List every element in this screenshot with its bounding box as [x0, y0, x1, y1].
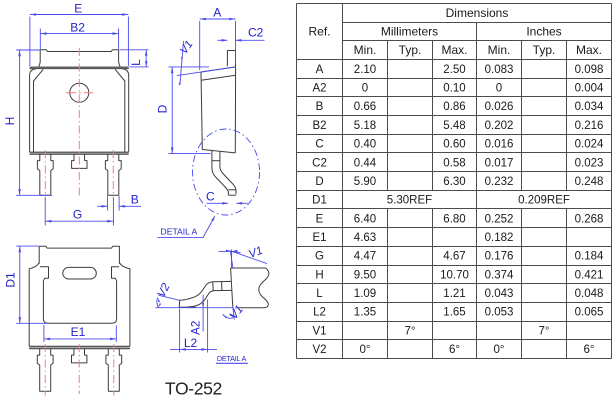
svg-text:0.023: 0.023 [575, 157, 604, 169]
dimension V1 top (detail) [231, 250, 233, 269]
svg-text:V1: V1 [228, 304, 246, 322]
svg-text:6.40: 6.40 [354, 213, 376, 225]
svg-text:0.248: 0.248 [575, 176, 604, 188]
bottom view: red center lines [44, 344, 46, 396]
detail A: lead foot [179, 281, 231, 307]
svg-text:D1: D1 [3, 272, 17, 288]
svg-text:DETAIL A: DETAIL A [161, 227, 198, 237]
detail A: body corner with break line [231, 268, 269, 308]
svg-text:V2: V2 [156, 281, 173, 299]
svg-text:0.60: 0.60 [443, 139, 465, 151]
svg-text:D1: D1 [312, 195, 327, 207]
svg-text:Typ.: Typ. [533, 43, 556, 57]
svg-text:B2: B2 [70, 21, 85, 35]
svg-text:0.184: 0.184 [575, 251, 604, 263]
svg-text:0.176: 0.176 [485, 251, 514, 263]
bottom view: right lead [106, 349, 122, 392]
svg-text:L2: L2 [184, 336, 198, 350]
svg-text:0.182: 0.182 [485, 232, 514, 244]
svg-text:0: 0 [496, 83, 502, 95]
svg-text:L: L [316, 288, 323, 300]
svg-text:0.40: 0.40 [354, 139, 376, 151]
svg-text:0.421: 0.421 [575, 269, 604, 281]
svg-text:A2: A2 [312, 83, 326, 95]
svg-text:6.30: 6.30 [443, 176, 465, 188]
svg-text:6.80: 6.80 [443, 213, 465, 225]
svg-text:0.10: 0.10 [443, 83, 465, 95]
svg-text:1.21: 1.21 [443, 288, 465, 300]
svg-text:0.017: 0.017 [485, 157, 514, 169]
svg-text:5.48: 5.48 [443, 120, 465, 132]
svg-text:L2: L2 [313, 307, 326, 319]
svg-text:0.016: 0.016 [485, 139, 514, 151]
svg-text:0°: 0° [494, 344, 505, 356]
svg-text:0.065: 0.065 [575, 307, 604, 319]
svg-text:0.098: 0.098 [575, 64, 604, 76]
svg-text:4.63: 4.63 [354, 232, 376, 244]
dimension E [29, 17, 31, 67]
svg-text:0.268: 0.268 [575, 213, 604, 225]
svg-text:Min.: Min. [354, 43, 377, 57]
svg-text:1.09: 1.09 [354, 288, 376, 300]
dimension V1 (side view) [180, 41, 184, 84]
svg-text:9.50: 9.50 [354, 269, 376, 281]
svg-text:E: E [316, 213, 324, 225]
svg-text:1.65: 1.65 [443, 307, 465, 319]
svg-text:0.374: 0.374 [485, 269, 514, 281]
dimension V1 bottom (detail) [233, 307, 235, 319]
svg-text:D: D [155, 104, 169, 113]
detail A: seating plane line [156, 307, 234, 309]
svg-text:H: H [3, 117, 17, 126]
dimension C2 [218, 39, 228, 41]
dimension D1 [16, 245, 38, 247]
svg-text:0.004: 0.004 [575, 83, 604, 95]
svg-text:V1: V1 [178, 39, 196, 57]
svg-text:2.50: 2.50 [443, 64, 465, 76]
svg-text:B: B [316, 101, 324, 113]
svg-text:Typ.: Typ. [399, 43, 422, 57]
svg-text:TO-252: TO-252 [165, 379, 222, 399]
dimension B [107, 196, 109, 211]
svg-text:B2: B2 [312, 120, 326, 132]
dimensions table [297, 3, 612, 5]
svg-text:Max.: Max. [441, 43, 467, 57]
side view: detail ellipse [193, 129, 260, 215]
svg-text:Inches: Inches [526, 25, 561, 39]
svg-text:DETAIL A: DETAIL A [217, 354, 247, 363]
bottom view: center stub [72, 349, 87, 363]
svg-text:0.58: 0.58 [443, 157, 465, 169]
svg-text:4.67: 4.67 [443, 251, 465, 263]
svg-text:0.024: 0.024 [575, 139, 604, 151]
front view: left lead [37, 154, 53, 195]
front view: package body outline [39, 50, 121, 67]
bottom view: left lead [37, 349, 53, 392]
svg-text:0.252: 0.252 [485, 213, 514, 225]
bottom view: slot [63, 267, 97, 279]
svg-text:A2: A2 [190, 321, 202, 335]
svg-text:7°: 7° [539, 325, 550, 337]
svg-text:0.034: 0.034 [575, 101, 604, 113]
svg-text:D: D [315, 176, 323, 188]
svg-text:7°: 7° [405, 325, 416, 337]
svg-text:0.053: 0.053 [485, 307, 514, 319]
svg-text:1.35: 1.35 [354, 307, 376, 319]
svg-text:E1: E1 [312, 232, 326, 244]
front view: red center lines [78, 48, 80, 199]
dimension L [120, 49, 149, 51]
svg-text:5.90: 5.90 [354, 176, 376, 188]
dimension D [169, 66, 210, 68]
svg-text:V1: V1 [312, 325, 326, 337]
svg-text:B: B [131, 193, 139, 207]
svg-text:0.043: 0.043 [485, 288, 514, 300]
svg-text:V2: V2 [312, 344, 326, 356]
svg-text:A: A [316, 64, 324, 76]
dimension H [16, 49, 40, 51]
svg-text:C2: C2 [312, 157, 327, 169]
side view: tab [227, 51, 235, 67]
svg-text:2.10: 2.10 [354, 64, 376, 76]
dimension E1 [43, 325, 45, 342]
svg-text:0.66: 0.66 [354, 101, 376, 113]
bottom view: inner mold outline [40, 267, 119, 323]
svg-text:Max.: Max. [576, 43, 602, 57]
svg-text:C2: C2 [248, 25, 264, 39]
side view: lead S-bend [212, 151, 229, 195]
svg-text:0°: 0° [360, 344, 371, 356]
svg-text:0.202: 0.202 [485, 120, 514, 132]
svg-text:6°: 6° [449, 344, 460, 356]
svg-text:0.216: 0.216 [575, 120, 604, 132]
dimension C [207, 202, 229, 204]
svg-text:Min.: Min. [488, 43, 511, 57]
svg-text:0.44: 0.44 [354, 157, 377, 169]
svg-text:6°: 6° [584, 344, 595, 356]
front view: right lead [105, 154, 121, 195]
dimension G [44, 198, 46, 226]
svg-text:Ref.: Ref. [308, 25, 330, 39]
side view: body [201, 67, 236, 72]
dimension V2 (detail) [159, 295, 181, 300]
front view: center stub lead [72, 154, 87, 168]
svg-text:Millimeters: Millimeters [381, 25, 438, 39]
svg-text:5.18: 5.18 [354, 120, 376, 132]
svg-text:G: G [73, 207, 82, 221]
front view: mounting hole circle [70, 83, 89, 102]
svg-text:0.232: 0.232 [485, 176, 514, 188]
svg-text:0.86: 0.86 [443, 101, 465, 113]
svg-text:10.70: 10.70 [440, 269, 469, 281]
bottom view: tab [39, 246, 119, 264]
svg-text:5.30REF: 5.30REF [387, 195, 432, 207]
svg-text:4.47: 4.47 [354, 251, 376, 263]
dimension L2 (detail) [179, 309, 181, 353]
dimension A [199, 21, 201, 70]
svg-text:0.209REF: 0.209REF [518, 195, 570, 207]
svg-text:V1: V1 [247, 245, 264, 261]
svg-text:G: G [315, 251, 324, 263]
svg-text:0.083: 0.083 [485, 64, 514, 76]
svg-text:0: 0 [362, 83, 368, 95]
svg-text:0.048: 0.048 [575, 288, 604, 300]
svg-text:C: C [206, 190, 215, 204]
svg-text:0.026: 0.026 [485, 101, 514, 113]
svg-text:A: A [213, 6, 221, 20]
svg-text:E1: E1 [71, 325, 86, 339]
dimension B2 [39, 29, 41, 50]
svg-text:L: L [129, 59, 143, 66]
svg-text:Dimensions: Dimensions [446, 6, 509, 20]
svg-text:C: C [315, 139, 323, 151]
svg-text:E: E [74, 2, 82, 16]
bottom view: body outline [29, 263, 39, 347]
dimension A2 (detail) [202, 295, 204, 332]
svg-text:H: H [315, 269, 323, 281]
